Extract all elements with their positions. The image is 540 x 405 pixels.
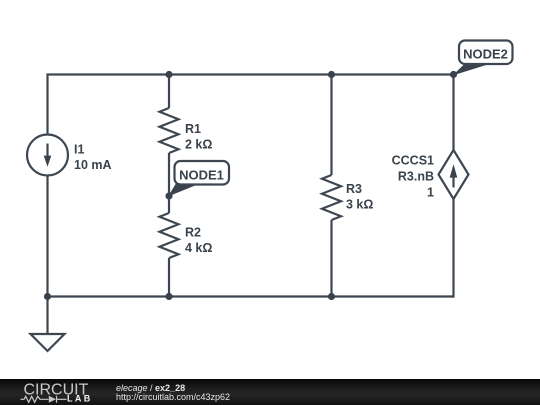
footer credits bbox=[116, 384, 185, 393]
footer bar bbox=[0, 379, 540, 405]
node dot bottom R2 bbox=[165, 293, 172, 300]
wire R1 bottom lead bbox=[168, 153, 170, 196]
wire CCCS top lead bbox=[452, 75, 454, 151]
NODE2 callout box bbox=[459, 41, 513, 65]
node dot bottom left bbox=[44, 293, 51, 300]
wire R2 top lead bbox=[168, 196, 170, 213]
wire top horizontal + left upper branch bbox=[48, 75, 454, 135]
ground bbox=[31, 334, 65, 351]
svg-text:4 kΩ: 4 kΩ bbox=[185, 241, 212, 255]
NODE2 tail bbox=[453, 63, 492, 76]
svg-text:R3: R3 bbox=[346, 182, 362, 196]
wire CCCS bottom lead + bottom-right corner bbox=[451, 199, 454, 297]
node dot top R3 bbox=[328, 71, 335, 78]
wire R2 bottom lead bbox=[168, 258, 170, 297]
svg-text:2 kΩ: 2 kΩ bbox=[185, 138, 212, 152]
wire ground lead bbox=[46, 297, 48, 335]
wire R3 bottom lead bbox=[330, 220, 332, 297]
node dot NODE1 bbox=[165, 192, 172, 199]
svg-text:CCCS1: CCCS1 bbox=[392, 154, 434, 168]
CircuitLab logo bbox=[0, 379, 110, 405]
wire R3 top lead bbox=[330, 75, 332, 176]
NODE1 callout box bbox=[175, 161, 230, 185]
svg-text:R2: R2 bbox=[185, 226, 201, 240]
wire left branch lower bbox=[46, 176, 48, 297]
svg-text:NODE1: NODE1 bbox=[179, 168, 224, 183]
svg-text:10 mA: 10 mA bbox=[74, 158, 112, 172]
svg-text:3 kΩ: 3 kΩ bbox=[346, 198, 373, 212]
current source I1 bbox=[27, 135, 68, 176]
I1 arrow shaft bbox=[46, 144, 48, 158]
resistor R1 bbox=[160, 108, 179, 153]
svg-text:I1: I1 bbox=[74, 143, 84, 157]
resistor R2 bbox=[160, 213, 179, 258]
node dot NODE2 bbox=[450, 71, 457, 78]
svg-text:R3.nB: R3.nB bbox=[398, 170, 434, 184]
node dot bottom R3 bbox=[328, 293, 335, 300]
resistor R3 bbox=[322, 175, 341, 220]
node dot top R1 bbox=[165, 71, 172, 78]
I1 arrow head bbox=[44, 156, 52, 167]
svg-text:1: 1 bbox=[427, 186, 434, 200]
svg-text:LAB: LAB bbox=[67, 393, 93, 403]
CCCS1 diamond bbox=[439, 150, 469, 199]
wire R1 top lead bbox=[168, 75, 170, 109]
NODE1 tail bbox=[168, 183, 200, 197]
CCCS1 arrow head bbox=[450, 164, 458, 177]
svg-text:R1: R1 bbox=[185, 122, 201, 136]
CCCS1 arrow shaft bbox=[452, 176, 454, 188]
svg-text:NODE2: NODE2 bbox=[463, 47, 508, 62]
wire bottom horizontal bbox=[48, 295, 454, 297]
